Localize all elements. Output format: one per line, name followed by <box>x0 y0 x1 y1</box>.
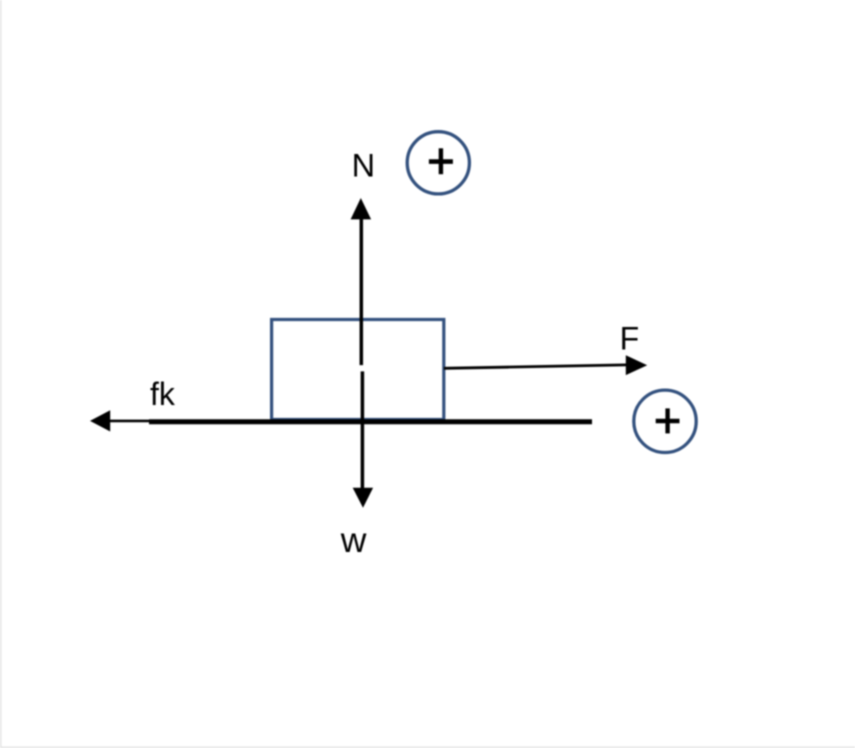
applied force arrow F (head) <box>626 355 647 375</box>
normal force arrow N (shaft) <box>360 219 364 365</box>
weight arrow w (head) <box>353 488 373 508</box>
friction force arrow fk (head) <box>90 410 110 431</box>
plus sign (right circle) <box>656 419 680 424</box>
svg-text:F: F <box>620 321 640 357</box>
friction force arrow fk (shaft) <box>108 420 165 423</box>
block (box on surface) <box>272 320 444 420</box>
svg-text:w: w <box>340 520 367 560</box>
plus sign (top circle) <box>429 159 453 164</box>
bottom page edge <box>0 747 855 748</box>
svg-text:fk: fk <box>150 376 176 412</box>
ground surface line <box>149 419 592 424</box>
applied force arrow F (shaft) <box>444 365 627 368</box>
weight arrow w (shaft) <box>361 371 365 488</box>
svg-text:N: N <box>352 148 375 184</box>
positive direction circle (right) <box>634 390 696 452</box>
positive direction circle (top) <box>407 132 469 194</box>
left page edge <box>0 0 2 748</box>
normal force arrow N (head) <box>351 198 372 219</box>
